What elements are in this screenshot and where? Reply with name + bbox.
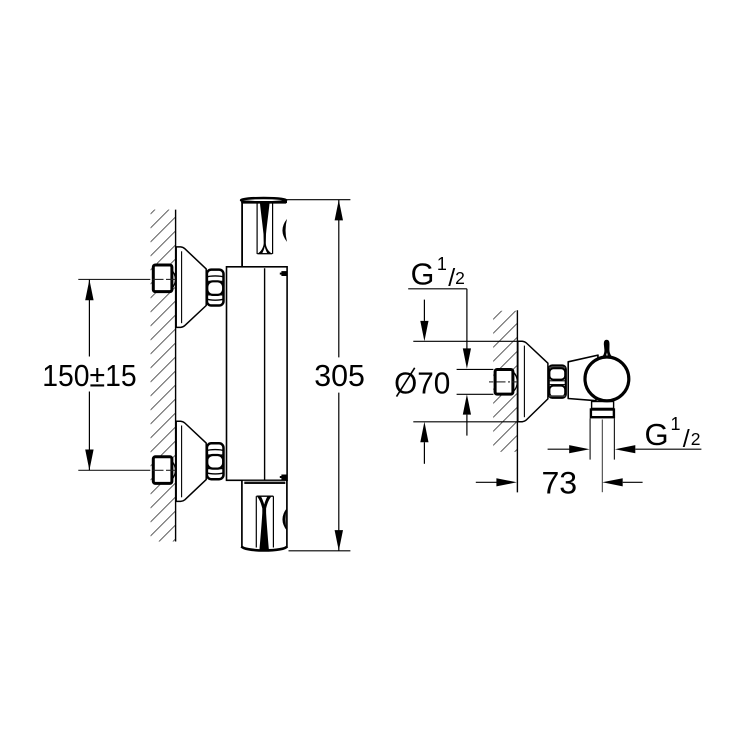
wall line (front view) <box>175 210 177 542</box>
grip groove top knob <box>258 203 271 254</box>
handle circle (side view) <box>585 357 629 401</box>
svg-text:1: 1 <box>671 414 681 434</box>
svg-text:G: G <box>411 257 435 291</box>
escutcheon lower (front view) <box>176 421 206 501</box>
bottom control knob <box>242 481 287 551</box>
wall hatching (side view) <box>493 311 517 452</box>
svg-text:2: 2 <box>455 268 465 288</box>
side groove top knob <box>282 219 287 242</box>
hex nut (side view) <box>549 366 566 398</box>
outlet pipe <box>590 418 614 459</box>
hex nut upper (front view) <box>207 270 224 306</box>
centerline lower inlet <box>78 469 175 471</box>
svg-text:73: 73 <box>541 465 577 501</box>
outlet collar <box>592 402 614 409</box>
label G 1/2 top with leader <box>408 254 471 436</box>
escutcheon (side view) <box>518 341 548 422</box>
dimension Ø70 <box>394 300 518 464</box>
hex nut lower (front view) <box>207 443 224 479</box>
union nipple (side view, behind wall) <box>495 370 517 395</box>
svg-text:2: 2 <box>691 429 701 449</box>
side groove bottom knob <box>282 508 287 531</box>
centerline inlet (side view) <box>489 381 517 383</box>
grip groove bottom knob <box>258 496 271 549</box>
svg-text:1: 1 <box>437 254 447 274</box>
svg-text:/: / <box>683 425 690 453</box>
union nipple lower (behind wall) <box>153 457 175 484</box>
svg-text:O70: O70 <box>394 366 450 401</box>
thermostat body (front view) <box>227 267 288 481</box>
svg-text:305: 305 <box>314 358 365 393</box>
dimension 305 <box>284 200 365 551</box>
top control knob <box>241 198 287 267</box>
union nipple upper (behind wall) <box>153 265 175 292</box>
valve body (side view) <box>568 355 598 401</box>
wall line (side view) <box>516 310 518 492</box>
dimension 150±15 <box>42 280 136 471</box>
svg-text:150±15: 150±15 <box>42 359 136 394</box>
stop button upper <box>280 271 288 276</box>
centerline upper inlet <box>78 278 175 280</box>
dimension 73 <box>476 465 643 501</box>
label G 1/2 bottom with dimension line <box>548 414 702 453</box>
pipe centerline <box>601 420 603 493</box>
escutcheon upper (front view) <box>176 247 206 328</box>
stop button lower <box>280 475 287 480</box>
outlet nut <box>591 410 614 418</box>
svg-text:G: G <box>645 417 669 452</box>
wall hatching (front view) <box>151 210 176 542</box>
temperature lever <box>602 340 613 358</box>
